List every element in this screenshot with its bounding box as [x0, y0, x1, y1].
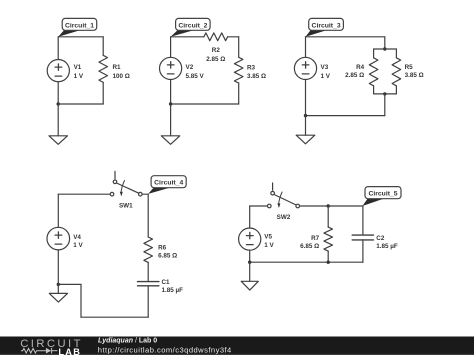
svg-text:3.85 Ω: 3.85 Ω [405, 72, 424, 79]
label V3 value [321, 64, 331, 80]
wire: C3 bottom rail [306, 115, 385, 117]
svg-text:1 V: 1 V [73, 242, 83, 249]
svg-text:100 Ω: 100 Ω [113, 73, 130, 80]
label R5 value [405, 64, 424, 79]
svg-text:2.85 Ω: 2.85 Ω [206, 56, 225, 63]
wire: C1 ground stub [57, 104, 59, 136]
wire: C3 top rail [306, 36, 385, 38]
node label callout Circuit_2 [171, 18, 211, 36]
voltage source V3 [294, 57, 316, 79]
svg-text:R2: R2 [212, 47, 221, 54]
resistor R4 [373, 49, 375, 58]
ground: circuit 1 [49, 136, 68, 145]
switch SW1 [114, 171, 116, 178]
voltage source V2 [160, 57, 182, 79]
label V4 value [73, 234, 83, 249]
resistor R1 [102, 37, 104, 56]
voltage source V1 [47, 60, 69, 82]
svg-text:C1: C1 [162, 279, 171, 286]
label R2 value [206, 47, 225, 63]
svg-text:V4: V4 [73, 234, 81, 241]
svg-text:LAB: LAB [58, 347, 81, 355]
node: R7 bottom junction [327, 261, 330, 264]
label V1 value [74, 64, 84, 80]
svg-text:V5: V5 [264, 234, 272, 241]
wire: C5 bottom rail [250, 261, 363, 263]
svg-text:1 V: 1 V [74, 73, 84, 80]
svg-text:http://circuitlab.com/c3qddwsf: http://circuitlab.com/c3qddwsfny3f4 [98, 345, 232, 354]
svg-text:1.85 µF: 1.85 µF [162, 287, 184, 294]
wire: C2 left bottom stub [170, 80, 172, 105]
capacitor C1 [138, 282, 159, 286]
node: C1 bottom-left junction [57, 102, 60, 105]
svg-text:2.85 Ω: 2.85 Ω [345, 72, 364, 79]
wire: C3 drop to parallel pair [384, 37, 386, 49]
node label callout Circuit_3 [306, 18, 344, 36]
voltage source V4 [47, 227, 70, 250]
wire: C4 bottom rail [81, 316, 148, 318]
svg-text:V3: V3 [321, 64, 329, 71]
wire: C4 left top stub [57, 194, 59, 227]
node: R7 top junction [327, 204, 330, 207]
label R1 value [113, 64, 130, 80]
svg-text:6.85 Ω: 6.85 Ω [300, 243, 319, 250]
svg-text:R6: R6 [158, 244, 167, 251]
wire: R6 to C1 [147, 262, 149, 281]
node label callout Circuit_4 [148, 176, 186, 194]
svg-text:Circuit_4: Circuit_4 [154, 180, 183, 187]
resistor R2 [204, 33, 228, 41]
wire: C3 riser to bottom rail [384, 94, 386, 116]
wire: C4 switch to corner [142, 193, 148, 195]
wire: C3 ground stub [305, 116, 307, 136]
svg-text:1 V: 1 V [321, 73, 331, 80]
svg-text:SW1: SW1 [119, 203, 133, 210]
label C1 value [162, 279, 184, 294]
svg-text:R5: R5 [405, 64, 414, 71]
svg-text:C2: C2 [376, 235, 385, 242]
voltage source V5 [239, 228, 261, 250]
node label callout Circuit_1 [58, 18, 96, 36]
wire: C4 node to riser [58, 283, 81, 285]
wire: C5 ground stub [249, 262, 251, 281]
node: C5 ground junction [248, 261, 251, 264]
svg-text:3.85 Ω: 3.85 Ω [247, 73, 266, 80]
svg-text:1 V: 1 V [264, 242, 274, 249]
wire: C1 top rail [58, 36, 103, 38]
wire: C1 left bottom stub [57, 82, 59, 104]
svg-text:Circuit_5: Circuit_5 [368, 191, 397, 198]
label R3 value [247, 65, 266, 80]
svg-text:Circuit_3: Circuit_3 [312, 22, 341, 29]
capacitor C2 [352, 235, 373, 240]
svg-text:5.85 V: 5.85 V [186, 73, 205, 80]
ground: circuit 2 [161, 136, 180, 145]
wire: C2 top-left segment [171, 36, 204, 38]
resistor R3 [238, 37, 240, 58]
resistor R5 [395, 49, 397, 58]
wire: C4 top-left segment [58, 193, 110, 195]
wire: parallel bottom rail [374, 93, 397, 95]
wire: C5 left top stub [249, 206, 251, 228]
node: C2 bottom-left junction [169, 102, 172, 105]
label R6 value [158, 244, 177, 259]
label R4 value [345, 64, 365, 79]
node label callout Circuit_5 [362, 187, 401, 206]
wire: C2 bottom rail [171, 103, 239, 105]
svg-text:R1: R1 [113, 64, 122, 71]
wire: C4 bottom-left riser [80, 284, 82, 317]
wire: C2 drop from top rail [362, 206, 364, 235]
ground: circuit 5 [241, 281, 258, 290]
wire: C5 switch to C2 corner [300, 205, 363, 207]
wire: C2 cap to bottom rail [362, 240, 364, 262]
ground: circuit 3 [296, 135, 315, 144]
resistor R6 [144, 237, 153, 262]
wire: C1 left top stub [57, 37, 59, 60]
label V5 value [264, 234, 274, 249]
svg-text:R3: R3 [247, 65, 256, 72]
svg-text:R4: R4 [356, 64, 365, 71]
svg-text:SW2: SW2 [277, 214, 291, 221]
resistor R7 [327, 206, 329, 227]
svg-text:R7: R7 [311, 235, 320, 242]
switch SW2 [272, 183, 274, 190]
svg-text:V1: V1 [74, 64, 82, 71]
label C2 value [376, 235, 398, 250]
svg-text:6.85 Ω: 6.85 Ω [158, 252, 177, 259]
svg-text:1.85 µF: 1.85 µF [376, 243, 398, 250]
node: parallel bottom junction [383, 92, 386, 95]
wire: C2 top-right segment [228, 36, 239, 38]
CircuitLab logo waveform (resistor + diode) [21, 348, 57, 354]
wire: C4 left bottom stub [57, 250, 59, 285]
footer bar [0, 337, 474, 355]
ground: circuit 4 [49, 293, 67, 302]
wire: C3 left top stub [305, 37, 307, 58]
svg-text:Circuit_1: Circuit_1 [65, 22, 94, 29]
wire: C5 top-left segment [250, 205, 268, 207]
node: parallel top junction [383, 47, 386, 50]
wire: C1 cap to bottom rail [147, 286, 149, 317]
wire: C2 ground stub [170, 104, 172, 136]
node: C4 ground junction [57, 283, 60, 286]
svg-text:Lydiaquan / Lab 0: Lydiaquan / Lab 0 [98, 337, 157, 344]
label V2 value [186, 64, 205, 80]
wire: C2 left top stub [170, 37, 172, 58]
label R7 value [300, 235, 320, 250]
wire: C3 left bottom stub [305, 80, 307, 116]
wire: parallel top rail [374, 48, 397, 50]
wire: C4 ground stub [57, 284, 59, 293]
wire: C4 right drop to R6 [147, 194, 149, 237]
wire: C5 left bottom stub [249, 250, 251, 262]
wire: C1 bottom rail [58, 103, 103, 105]
node: C3 bottom-left junction [304, 114, 307, 117]
svg-text:V2: V2 [186, 64, 194, 71]
svg-text:Circuit_2: Circuit_2 [178, 22, 207, 29]
